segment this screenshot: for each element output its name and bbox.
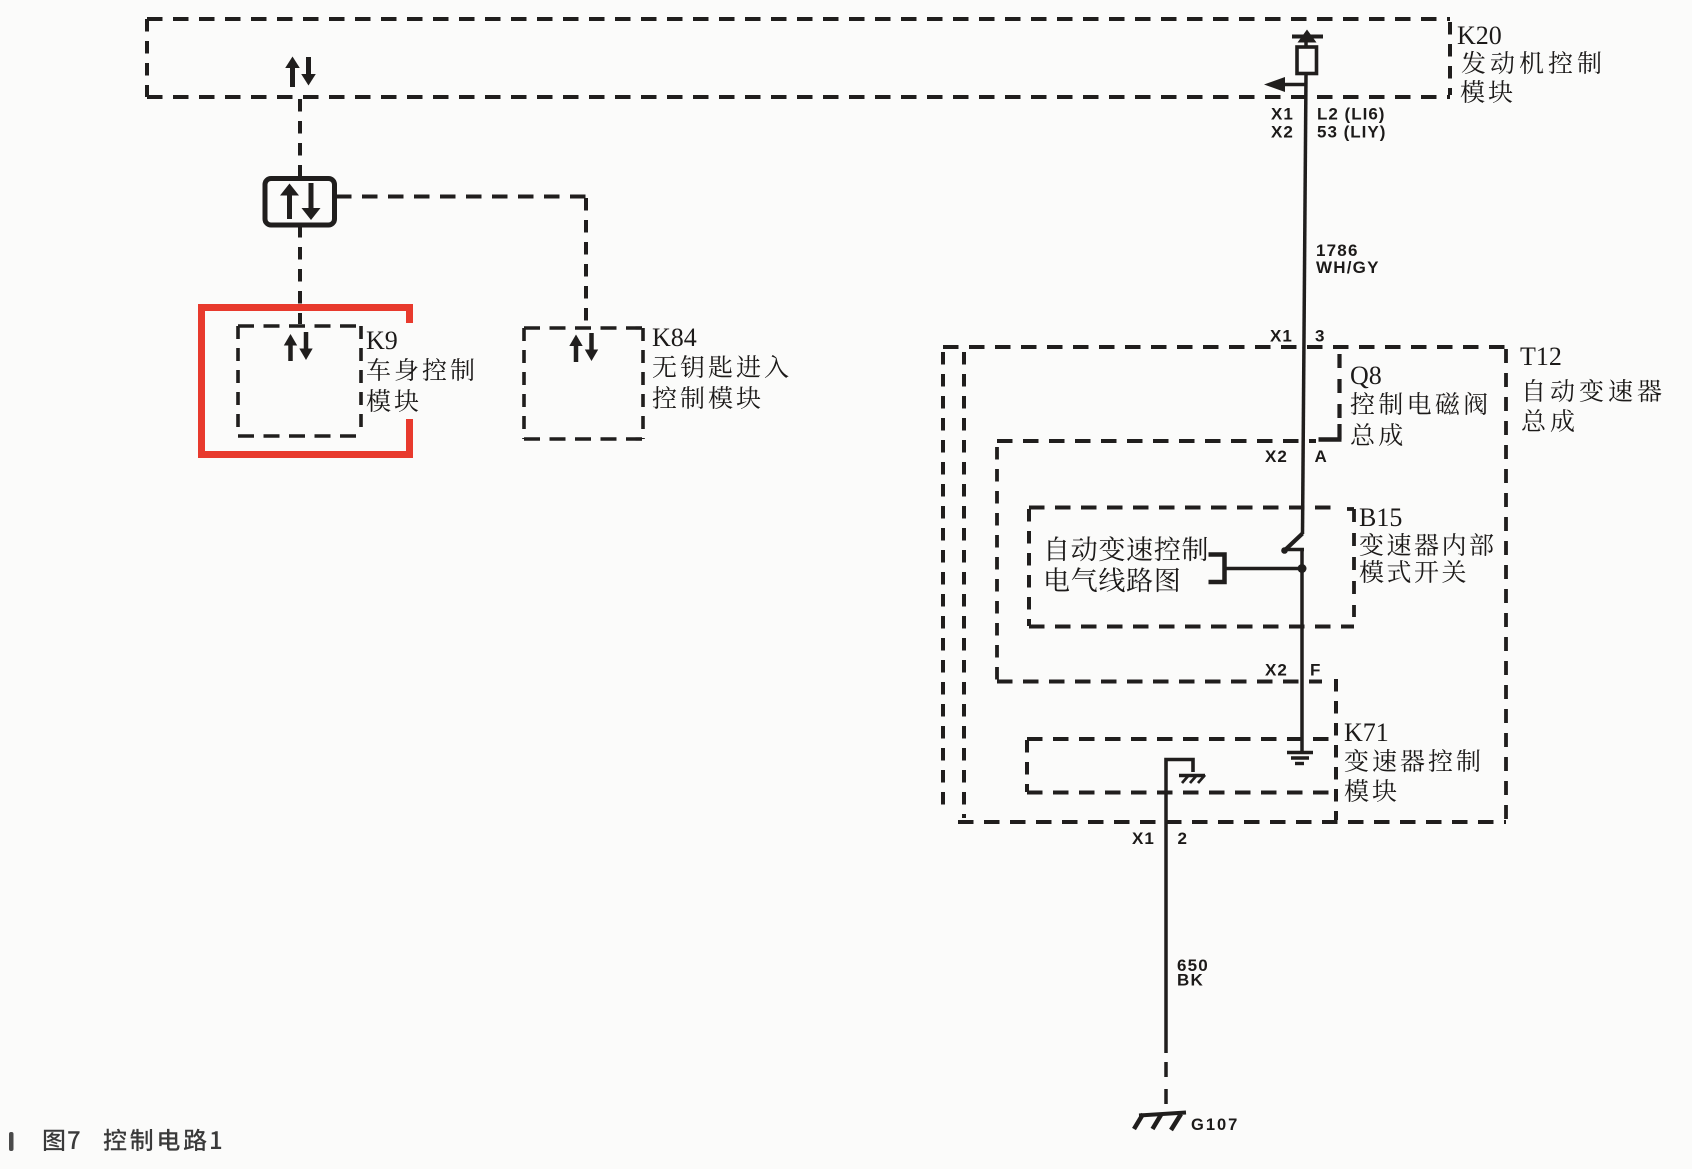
svg-text:A: A [1315,447,1328,466]
switch B15 contact (open) [1281,534,1304,554]
svg-text:3: 3 [1315,327,1325,346]
K84 label [652,323,788,409]
svg-text:X1: X1 [1271,105,1294,124]
module K20 engine control module dashed box [147,19,1450,97]
svg-text:Q8: Q8 [1350,361,1382,390]
assembly Q8 control solenoid dashed box [964,352,1342,818]
svg-text:X1: X1 [1132,829,1155,848]
wire 650 BK from K71 to G107 [1164,770,1168,1104]
reference box text [1046,536,1207,592]
svg-text:X2: X2 [1265,661,1288,680]
wire 1786 WH/GY from K20 to Q8 [1303,74,1307,534]
pin label X2 A (B15 connector) [1265,447,1328,466]
svg-text:X2: X2 [1265,447,1288,466]
svg-text:K20: K20 [1457,21,1502,50]
svg-text:K71: K71 [1344,718,1389,747]
resistor termination inside K20 with bus bar [1292,30,1323,74]
wire from connector box down to K9 [298,225,302,324]
wire from switch to ground in K71 [1300,550,1304,753]
svg-text:X2: X2 [1271,123,1294,142]
svg-text:X1: X1 [1270,327,1293,346]
ground symbol (earth) inside K71 [1287,753,1313,764]
pin label X1 2 [1132,829,1188,848]
red highlight box around K9 [202,308,410,455]
svg-text:53 (LIY): 53 (LIY) [1317,123,1386,142]
K9 label [366,326,474,412]
bracket connector from reference box to wire [1209,555,1307,583]
pin labels X1 L2 (LI6) / X2 53 (LIY) [1271,105,1386,142]
pin label X1 3 (Q8 connector) [1270,327,1325,346]
svg-text:K9: K9 [366,326,398,355]
caption figure 7 control circuit 1 [44,1129,221,1151]
page binding mark [9,1132,14,1151]
svg-text:K84: K84 [652,323,697,352]
chassis ground symbol inside K71 [1166,760,1205,784]
assembly T12 automatic transmission dashed box [943,347,1506,822]
wire serial data from K20 down to connector box [298,99,302,177]
data link connector symbol (box with up/down arrows) [265,179,335,226]
svg-text:T12: T12 [1520,342,1562,371]
T12 label [1520,342,1661,432]
svg-text:BK: BK [1177,971,1204,990]
wire from connector box right to K84 [336,197,586,327]
pin label X2 F [1265,661,1321,680]
wire label 650 BK [1177,956,1209,990]
ground label G107 [1191,1116,1239,1134]
K84 data arrows [569,333,598,362]
K9 data arrows [284,332,313,361]
K71 label [1344,718,1480,802]
box B15 transmission internal mode switch [997,447,1322,682]
svg-text:F: F [1310,661,1321,680]
svg-text:B15: B15 [1359,503,1402,532]
wire label 1786 WH/GY [1316,241,1380,277]
svg-text:2: 2 [1178,829,1188,848]
svg-text:G107: G107 [1191,1116,1239,1134]
module K71 transmission control module dashed box [1027,679,1336,820]
B15 label [1359,503,1493,583]
arrow into K20 (signal direction) [1264,77,1306,92]
svg-text:L2 (LI6): L2 (LI6) [1317,105,1385,124]
K20 label [1457,21,1601,103]
ground G107 chassis symbol [1134,1113,1186,1131]
data bus arrows (serial data) at top [285,57,316,88]
reference box automatic transmission control schematics [1029,508,1354,627]
svg-text:WH/GY: WH/GY [1316,258,1380,277]
module K9 body control module dashed box [238,326,361,436]
Q8 label [1350,361,1487,446]
module K84 keyless entry control module dashed box [524,328,643,439]
